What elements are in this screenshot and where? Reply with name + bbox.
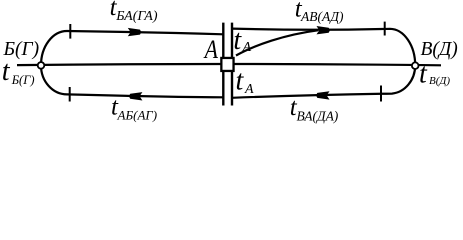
svg-text:АБ(АГ): АБ(АГ)	[117, 107, 158, 122]
svg-text:ВА(ДА): ВА(ДА)	[297, 109, 339, 124]
svg-text:В(Д): В(Д)	[429, 75, 450, 87]
svg-text:В(Д): В(Д)	[421, 39, 458, 60]
svg-text:АВ(АД): АВ(АД)	[300, 9, 344, 24]
svg-text:БА(ГА): БА(ГА)	[115, 9, 158, 24]
svg-text:t: t	[236, 65, 245, 96]
svg-text:t: t	[2, 56, 11, 87]
svg-text:А: А	[203, 37, 218, 65]
svg-text:t: t	[233, 25, 242, 56]
svg-text:А: А	[242, 40, 252, 55]
svg-text:t: t	[419, 58, 428, 89]
svg-text:Б(Г): Б(Г)	[11, 73, 35, 87]
svg-text:А: А	[244, 82, 254, 97]
